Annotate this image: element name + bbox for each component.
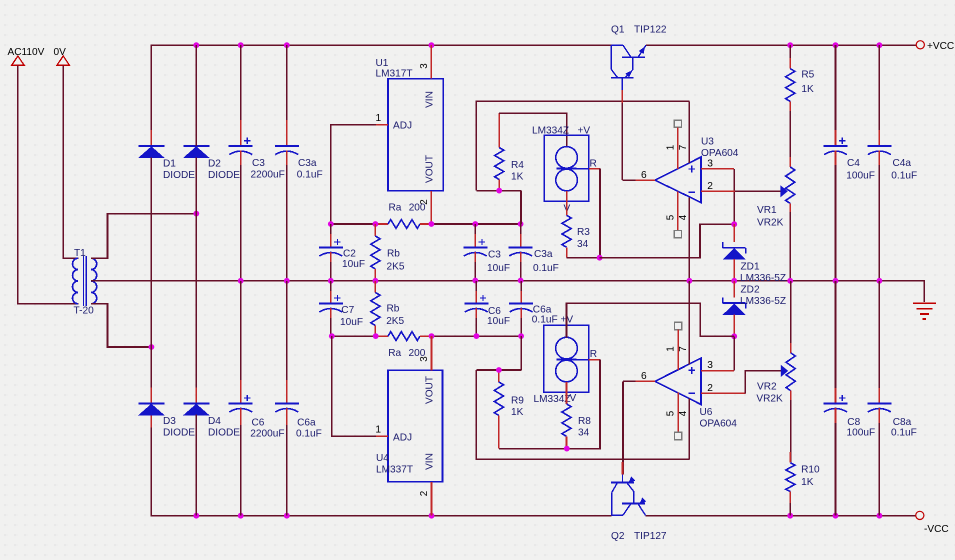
svg-text:1K: 1K [511, 407, 524, 418]
pin 1 U4 ADJ [376, 435, 388, 437]
pin 5 U3 [677, 192, 679, 231]
junction R8 bottom [564, 446, 570, 452]
junction (475.3,224) [472, 221, 478, 227]
capacitor C6a 0.1uF (mid) [520, 281, 522, 304]
pin 2 U4 VIN [431, 482, 433, 516]
wire pin3 to ZD1 node [733, 169, 735, 224]
svg-text:3: 3 [707, 360, 713, 371]
junction R3/R-pin [597, 255, 603, 261]
svg-text:LM337T: LM337T [376, 465, 413, 476]
pin 2 U6 to VR2 wiper [701, 392, 745, 394]
junction C3mid/ground [472, 278, 478, 284]
svg-text:U6: U6 [700, 407, 713, 418]
wire x520 up-link [520, 191, 522, 224]
svg-text:1K: 1K [511, 172, 524, 183]
wire R4 top to LM334Z +V [499, 113, 567, 147]
svg-text:200: 200 [409, 203, 426, 214]
junction ZD2 bottom node [731, 333, 737, 339]
wire R-pin down to R8 node [567, 360, 600, 449]
capacitor C7 10uF [330, 281, 332, 304]
svg-text:LM334Z: LM334Z [532, 126, 569, 137]
resistor Rb 2K5 (bottom) [374, 281, 376, 293]
svg-text:6: 6 [641, 170, 647, 181]
wire D2 cathode up [195, 45, 197, 146]
potentiometer VR1 VR2K [786, 167, 795, 203]
junction R9 top [496, 367, 502, 373]
junction bottom rail x287 [284, 513, 290, 519]
pin R LM334Z bottom [577, 359, 589, 361]
junction C3a-mid/ground [518, 278, 524, 284]
wire 0V to transformer primary top [63, 65, 78, 258]
pin 3 U1 VIN [430, 45, 432, 78]
wire x521 down-link [520, 336, 522, 370]
junction top rail x240 [238, 42, 244, 48]
svg-text:D2: D2 [208, 159, 221, 170]
potentiometer VR2 VR2K [790, 281, 792, 353]
junction (331.8,336.1) [329, 333, 335, 339]
junction top rail x287 [284, 42, 290, 48]
wire AC110V to transformer primary bottom [18, 65, 79, 303]
junction bottom rail x240 [238, 513, 244, 519]
svg-text:1: 1 [666, 145, 677, 150]
svg-text:5: 5 [666, 214, 677, 220]
svg-text:D3: D3 [163, 416, 176, 427]
svg-text:VR2: VR2 [757, 381, 777, 392]
pin 4 U6 [688, 398, 690, 459]
pin 1 U1 ADJ [376, 124, 388, 126]
diode D2 [195, 130, 197, 146]
junction bottom rail x431 [429, 513, 435, 519]
svg-text:U1: U1 [376, 58, 389, 69]
svg-text:TIP122: TIP122 [634, 25, 667, 36]
svg-text:1: 1 [375, 424, 381, 435]
svg-text:C3: C3 [252, 158, 265, 169]
svg-text:AC110V: AC110V [8, 47, 45, 58]
junction (375.4,224) [373, 221, 379, 227]
junction (521.1,336.1) [518, 333, 524, 339]
junction R4 bottom [496, 188, 502, 194]
resistor R10 1K [786, 463, 795, 492]
resistor Rb 2K5 (top) [374, 224, 376, 236]
capacitor C8a 0.1uF [878, 281, 880, 404]
svg-text:C2: C2 [343, 249, 356, 260]
zener ZD2 LM336-5Z [723, 302, 746, 304]
svg-text:VR2K: VR2K [757, 218, 784, 229]
pin 3 U3 [701, 168, 734, 170]
svg-text:3: 3 [419, 63, 430, 69]
regulator U4 LM337T [388, 370, 443, 481]
svg-text:4: 4 [678, 410, 689, 416]
svg-text:6: 6 [641, 371, 647, 382]
svg-text:ADJ: ADJ [393, 432, 412, 443]
capacitor C3a 0.1uF (left) [286, 45, 288, 146]
junction ZD1/ground [731, 278, 737, 284]
svg-text:T1: T1 [74, 248, 86, 259]
junction VR1/ground [787, 278, 793, 284]
current source LM334Z (top) [544, 135, 589, 201]
wire +VCC rail (right of Q1) [646, 44, 916, 46]
svg-text:34: 34 [577, 239, 589, 250]
junction U3 pin3 node [731, 221, 737, 227]
capacitor C3 10uF (mid) [474, 224, 476, 247]
junction C4a/ground [877, 278, 883, 284]
capacitor C8 100uF [835, 281, 837, 404]
wire U6 pin6 down to Q2 base [622, 381, 624, 474]
resistor R3 34 [566, 191, 568, 215]
svg-text:-VCC: -VCC [924, 524, 949, 535]
current source LM334Z (bottom) [544, 325, 589, 392]
svg-text:100uF: 100uF [846, 171, 875, 182]
capacitor C4 100uF [835, 45, 837, 146]
svg-text:Rb: Rb [387, 249, 400, 260]
svg-text:ZD2: ZD2 [741, 285, 760, 296]
svg-text:3: 3 [707, 159, 713, 170]
resistor R9 1K [498, 370, 500, 382]
svg-text:0.1uF: 0.1uF [296, 429, 322, 440]
svg-text:TIP127: TIP127 [634, 531, 667, 542]
svg-text:C6a: C6a [297, 418, 316, 429]
svg-text:7: 7 [678, 346, 689, 351]
wire U4 ADJ to C7/Ra node [332, 336, 376, 436]
svg-text:VR2K: VR2K [756, 393, 783, 404]
svg-text:10uF: 10uF [340, 317, 363, 328]
wire VR2 to R10 [790, 391, 792, 463]
svg-text:2200uF: 2200uF [251, 170, 285, 181]
junction secondary-bottom / D1 D3 [149, 344, 155, 350]
wire U1 ADJ to C2/Ra node [331, 125, 376, 224]
ground symbol [913, 302, 936, 304]
svg-text:10uF: 10uF [487, 263, 510, 274]
svg-text:2K5: 2K5 [386, 316, 404, 327]
svg-text:Q1: Q1 [611, 25, 625, 36]
svg-text:LM317T: LM317T [376, 69, 413, 80]
pin R LM334Z top [577, 168, 589, 170]
wire op-amp pin7 line (y=101) [476, 101, 689, 190]
capacitor C6 10uF (mid) [475, 281, 477, 304]
svg-text:C4a: C4a [893, 158, 912, 169]
svg-text:10uF: 10uF [342, 259, 365, 270]
svg-text:V: V [570, 393, 577, 404]
wire R3 bottom to node [567, 257, 600, 259]
wire -VCC rail (right of Q2) [646, 515, 916, 517]
junction top rail x879 [877, 42, 883, 48]
junction top rail x431 [429, 42, 435, 48]
wire bottom raw rail (left of Q2) [151, 415, 611, 516]
svg-text:+V: +V [578, 126, 591, 137]
diode D1 [150, 130, 152, 146]
resistor Ra 200 (top) [375, 223, 388, 225]
svg-text:C3a: C3a [298, 158, 317, 169]
diode D4 [195, 387, 197, 403]
svg-text:T-20: T-20 [74, 306, 95, 317]
wire D1 anode down [150, 158, 152, 348]
wire VR1 bottom to ground rail [789, 203, 791, 280]
svg-text:2: 2 [707, 181, 713, 192]
svg-text:U4: U4 [376, 453, 389, 464]
junction C3 / ground rail [238, 278, 244, 284]
junction (476.4,336.1) [474, 333, 480, 339]
op-amp U6 OPA604 [655, 358, 701, 404]
junction (431.5,336.1) [429, 333, 435, 339]
wire ADJ rail bottom [332, 335, 378, 337]
svg-text:5: 5 [666, 410, 677, 416]
svg-text:2200uF: 2200uF [250, 429, 284, 440]
pin 6 U3 [635, 179, 655, 181]
svg-text:Q2: Q2 [611, 531, 625, 542]
svg-text:DIODE: DIODE [208, 427, 240, 438]
svg-text:R4: R4 [511, 160, 524, 171]
svg-text:Rb: Rb [387, 304, 400, 315]
capacitor C3 2200uF [240, 45, 242, 146]
svg-text:ADJ: ADJ [393, 121, 412, 132]
wire R9 bottom to R8 node [499, 448, 567, 450]
resistor R8 34 [566, 382, 568, 404]
svg-text:C3: C3 [488, 250, 501, 261]
port +VCC [916, 41, 924, 49]
pin 7 U6 (to ground) [688, 281, 690, 365]
svg-text:R8: R8 [578, 416, 591, 427]
svg-text:ZD1: ZD1 [741, 262, 760, 273]
wire VOUT rail to x520 [431, 223, 520, 225]
junction (330.8,224) [328, 221, 334, 227]
port -VCC [916, 511, 924, 519]
svg-text:+VCC: +VCC [927, 41, 954, 52]
wire R9-top link [476, 369, 521, 371]
svg-text:Ra: Ra [389, 203, 402, 214]
svg-text:DIODE: DIODE [208, 170, 240, 181]
svg-text:0.1uF: 0.1uF [533, 263, 559, 274]
svg-text:VIN: VIN [425, 91, 436, 108]
svg-text:3: 3 [419, 356, 430, 362]
svg-text:1: 1 [376, 113, 382, 124]
junction C2/ground [328, 278, 334, 284]
wire D4 anode down [195, 415, 197, 516]
svg-text:2K5: 2K5 [387, 262, 405, 273]
wire R-pin down to R3 node [599, 169, 601, 258]
svg-text:DIODE: DIODE [163, 427, 195, 438]
svg-text:R: R [590, 349, 597, 360]
wire top raw-DC rail (left of Q1) [151, 45, 611, 146]
pin 5 U6 [677, 393, 679, 433]
wire LM334Z +V up-link [567, 303, 735, 337]
svg-text:C7: C7 [341, 305, 354, 316]
junction C4/ground [833, 278, 839, 284]
svg-text:R10: R10 [801, 465, 820, 476]
pin 1 U6 [675, 322, 682, 329]
pin 3 U4 VOUT [431, 336, 433, 370]
junction C3a / ground rail [284, 278, 290, 284]
wire U3 pin6 up to Q1 base [621, 90, 623, 180]
junction secondary-top / D2 [193, 211, 199, 217]
svg-text:U3: U3 [701, 137, 714, 148]
pin 4 U3 (to ground) [688, 198, 690, 281]
junction bottom rail x879 [877, 513, 883, 519]
svg-text:LM336-5Z: LM336-5Z [740, 296, 786, 307]
svg-text:VIN: VIN [425, 453, 436, 470]
junction bottom rail x835 [833, 513, 839, 519]
svg-text:1K: 1K [801, 477, 814, 488]
resistor Ra 200 (bottom) [376, 335, 388, 337]
svg-text:C8a: C8a [893, 417, 912, 428]
svg-text:C6: C6 [252, 418, 265, 429]
wire D2 anode down [195, 158, 197, 404]
svg-text:0.1uF: 0.1uF [532, 315, 558, 326]
svg-text:VR1: VR1 [757, 205, 777, 216]
junction top rail x790 [787, 42, 793, 48]
pin 2 U1 VOUT [430, 191, 432, 224]
wire R5 to VR1 [789, 101, 791, 167]
svg-text:VOUT: VOUT [425, 376, 436, 404]
capacitor C6 2200uF [240, 281, 242, 404]
svg-text:1K: 1K [801, 84, 814, 95]
wire R4-bottom link [476, 190, 521, 192]
junction (431.4,224) [429, 221, 435, 227]
svg-text:C3a: C3a [534, 249, 553, 260]
svg-text:R9: R9 [511, 396, 524, 407]
diode D3 [150, 387, 152, 403]
resistor R4 1K [498, 113, 500, 147]
wire op-amp U6 pin4 line (y=459) [476, 370, 689, 459]
junction bottom rail x196 [193, 513, 199, 519]
op-amp U3 OPA604 [655, 157, 701, 203]
wire rail to x521 [432, 335, 522, 337]
svg-text:10uF: 10uF [487, 316, 510, 327]
svg-text:LM334Z: LM334Z [534, 394, 571, 405]
svg-text:4: 4 [678, 214, 689, 220]
svg-text:C8: C8 [847, 417, 860, 428]
junction (375.7,336.1) [373, 333, 379, 339]
wire R3-node to U3 pin3 node [600, 224, 735, 258]
svg-text:0.1uF: 0.1uF [891, 171, 917, 182]
svg-text:R: R [590, 159, 597, 170]
pin 3 U6 [701, 370, 734, 372]
junction top rail x835 [833, 42, 839, 48]
wire secondary top to D2 anode node [91, 214, 196, 259]
svg-text:VOUT: VOUT [425, 155, 436, 183]
junction (520.6,224) [518, 221, 524, 227]
svg-text:100uF: 100uF [847, 428, 876, 439]
svg-text:0.1uF: 0.1uF [297, 170, 323, 181]
svg-text:OPA604: OPA604 [700, 419, 738, 430]
svg-text:7: 7 [678, 145, 689, 150]
capacitor C4a 0.1uF [878, 45, 880, 146]
junction bottom rail x790 [787, 513, 793, 519]
svg-text:2: 2 [707, 383, 713, 394]
svg-text:1: 1 [666, 346, 677, 351]
svg-text:34: 34 [578, 427, 590, 438]
junction top rail x196 [193, 42, 199, 48]
svg-text:LM336-5Z: LM336-5Z [740, 273, 786, 284]
pin 2 U3 to VR1 wiper [701, 190, 735, 192]
svg-text:Ra: Ra [388, 348, 401, 359]
pin 1 U3 [674, 120, 681, 127]
wire center-tap ground rail [91, 281, 924, 302]
junction Rb/ground [373, 278, 379, 284]
regulator U1 LM317T [388, 79, 443, 191]
svg-text:R3: R3 [577, 227, 590, 238]
resistor R5 1K [789, 45, 791, 68]
pin 7 U3 [688, 101, 690, 163]
wire ADJ rail top [331, 223, 378, 225]
svg-text:0.1uF: 0.1uF [891, 428, 917, 439]
svg-text:2: 2 [419, 491, 430, 496]
svg-text:DIODE: DIODE [163, 170, 195, 181]
capacitor C6a 0.1uF (left) [286, 281, 288, 404]
svg-text:D4: D4 [208, 416, 221, 427]
junction pin4/ground rail [687, 278, 693, 284]
svg-text:D1: D1 [163, 159, 176, 170]
wire secondary bottom to D1/D3 node [91, 304, 151, 347]
capacitor C3a 0.1uF (mid) [520, 224, 522, 247]
svg-text:C4: C4 [847, 158, 860, 169]
pin 6 U6 [635, 380, 655, 382]
svg-text:R5: R5 [801, 70, 814, 81]
capacitor C2 10uF [330, 224, 332, 247]
zener ZD1 LM336-5Z [723, 247, 746, 249]
